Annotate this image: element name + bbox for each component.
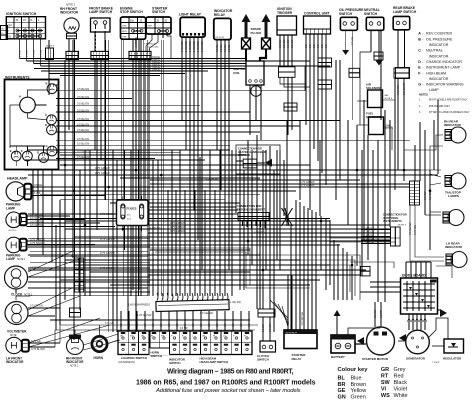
svg-text:RT: RT xyxy=(381,374,389,380)
svg-text:0.5 GN: 0.5 GN xyxy=(41,50,43,57)
svg-text:Colour key: Colour key xyxy=(338,367,369,373)
svg-text:1 WS: 1 WS xyxy=(34,191,41,195)
svg-text:SW: SW xyxy=(130,336,133,338)
svg-text:0.5 SW: 0.5 SW xyxy=(286,39,290,48)
svg-text:NEUTRAL: NEUTRAL xyxy=(426,49,443,53)
svg-text:0.5 GE: 0.5 GE xyxy=(366,233,374,237)
svg-text:1 SW/GE: 1 SW/GE xyxy=(188,41,192,52)
svg-text:0.5 GE/GN: 0.5 GE/GN xyxy=(254,232,265,234)
svg-text:GENERATOR: GENERATOR xyxy=(406,356,426,360)
svg-text:0.5: 0.5 xyxy=(215,323,219,327)
svg-text:LIGHTING SWITCH: LIGHTING SWITCH xyxy=(121,356,147,360)
svg-text:0.5 BL/SW: 0.5 BL/SW xyxy=(408,222,412,235)
svg-text:-: - xyxy=(422,49,423,53)
svg-text:SWITCH: SWITCH xyxy=(339,12,353,16)
svg-text:REGULATOR: REGULATOR xyxy=(443,356,462,360)
svg-text:HORN: HORN xyxy=(94,356,104,360)
svg-text:0.5: 0.5 xyxy=(320,44,324,48)
svg-text:NO.2: NO.2 xyxy=(127,219,131,221)
svg-text:-: - xyxy=(422,71,423,75)
svg-text:NOTE 1: NOTE 1 xyxy=(24,294,33,296)
svg-text:0.5 BL/GN: 0.5 BL/GN xyxy=(77,142,89,146)
svg-text:OFF: OFF xyxy=(122,37,127,39)
svg-text:RIGHT MODELS ARE R100RT ONLY: RIGHT MODELS ARE R100RT ONLY xyxy=(429,99,468,102)
svg-text:-: - xyxy=(422,37,423,41)
svg-text:HEADLAMP SWITCH: HEADLAMP SWITCH xyxy=(200,360,229,364)
svg-text:0.5: 0.5 xyxy=(316,44,320,48)
svg-text:0.5 BL/GN: 0.5 BL/GN xyxy=(77,137,89,141)
svg-text:1.5 SW: 1.5 SW xyxy=(373,309,377,318)
svg-text:1.5 WS: 1.5 WS xyxy=(252,177,261,180)
svg-text:0.75 SW/GN: 0.75 SW/GN xyxy=(30,237,45,241)
svg-text:0.5 BL/GN: 0.5 BL/GN xyxy=(77,128,89,132)
svg-text:0.5: 0.5 xyxy=(304,44,308,48)
svg-text:LAMP: LAMP xyxy=(6,257,16,261)
svg-text:GN: GN xyxy=(338,394,346,400)
svg-text:0.75 SW: 0.75 SW xyxy=(413,225,417,235)
svg-text:0.5 SW: 0.5 SW xyxy=(268,323,272,332)
svg-text:0.5 GN: 0.5 GN xyxy=(350,37,354,45)
svg-text:0.5 BL: 0.5 BL xyxy=(227,44,231,52)
svg-text:LAMP SWITCH: LAMP SWITCH xyxy=(89,10,113,14)
svg-text:Grey: Grey xyxy=(394,367,406,373)
svg-text:NOTE 3: NOTE 3 xyxy=(385,98,393,100)
svg-text:NOTE 3: NOTE 3 xyxy=(386,128,394,130)
svg-text:1.5 RT/WS: 1.5 RT/WS xyxy=(150,227,161,229)
svg-text:0.5 BL/GN: 0.5 BL/GN xyxy=(77,108,89,112)
svg-text:Additional fuse and power sock: Additional fuse and power socket not sho… xyxy=(155,388,301,394)
svg-text:0.75 GR: 0.75 GR xyxy=(105,323,114,325)
svg-text:0.5: 0.5 xyxy=(183,323,187,327)
svg-text:INDICATOR: INDICATOR xyxy=(429,54,449,58)
svg-text:0.5 SW GE: 0.5 SW GE xyxy=(300,312,304,325)
svg-text:0.5: 0.5 xyxy=(223,323,227,327)
svg-text:INDICATOR: INDICATOR xyxy=(60,11,79,15)
svg-text:0.5 BL: 0.5 BL xyxy=(215,44,219,52)
svg-text:1 SW/GE: 1 SW/GE xyxy=(184,41,188,52)
svg-text:SW: SW xyxy=(381,380,391,386)
svg-text:B: B xyxy=(418,37,421,41)
svg-text:0.5 BL/GN: 0.5 BL/GN xyxy=(77,155,89,159)
svg-text:0.5: 0.5 xyxy=(231,323,235,327)
svg-text:INDICATOR: INDICATOR xyxy=(445,245,463,249)
svg-text:1 SW/GE: 1 SW/GE xyxy=(192,41,196,52)
svg-text:NAY: NAY xyxy=(385,94,390,97)
svg-text:LIGHT RELAY: LIGHT RELAY xyxy=(179,13,202,17)
svg-text:0.5 GR/SW: 0.5 GR/SW xyxy=(30,219,44,223)
svg-text:1 GE SW: 1 GE SW xyxy=(230,300,241,304)
svg-text:0.5 SW: 0.5 SW xyxy=(423,191,427,200)
svg-text:0.5 GE/SW: 0.5 GE/SW xyxy=(200,311,214,315)
svg-text:0.5 SW: 0.5 SW xyxy=(282,39,286,48)
svg-text:0.5 RT: 0.5 RT xyxy=(379,310,383,318)
svg-text:0.5: 0.5 xyxy=(127,323,131,327)
svg-text:LAMPS: LAMPS xyxy=(448,194,459,198)
svg-text:0.75 SW: 0.75 SW xyxy=(396,85,400,95)
svg-text:ON: ON xyxy=(7,36,11,39)
svg-text:RUN: RUN xyxy=(122,31,127,33)
svg-text:0.5: 0.5 xyxy=(167,323,171,327)
svg-text:0.5: 0.5 xyxy=(247,323,251,327)
svg-text:1 SW/GE: 1 SW/GE xyxy=(180,41,184,52)
svg-text:0.5: 0.5 xyxy=(207,323,211,327)
svg-text:NOTES: NOTES xyxy=(419,92,428,96)
svg-text:0.5: 0.5 xyxy=(324,44,328,48)
svg-text:0.5: 0.5 xyxy=(191,323,195,327)
svg-text:THA: THA xyxy=(386,124,391,127)
svg-text:0.5 BL: 0.5 BL xyxy=(219,44,223,52)
svg-text:BL: BL xyxy=(338,376,346,382)
svg-text:1 SW/GE: 1 SW/GE xyxy=(196,41,200,52)
svg-text:0.5 GE: 0.5 GE xyxy=(366,226,374,230)
svg-text:VOLTMETER: VOLTMETER xyxy=(7,329,27,333)
svg-text:0.5 BL/GN: 0.5 BL/GN xyxy=(77,117,89,121)
svg-text:HEADLAMP: HEADLAMP xyxy=(7,176,28,180)
svg-text:OFF: OFF xyxy=(7,25,12,28)
svg-text:WS: WS xyxy=(381,393,390,399)
svg-text:BATTERY: BATTERY xyxy=(331,355,345,359)
svg-text:LAMP: LAMP xyxy=(6,206,16,210)
svg-text:0.5: 0.5 xyxy=(239,323,243,327)
svg-text:A: A xyxy=(418,32,421,36)
svg-text:B: B xyxy=(46,82,48,86)
svg-text:SWITCH: SWITCH xyxy=(151,354,162,358)
svg-text:CONNECTION FOR: CONNECTION FOR xyxy=(383,212,407,216)
svg-text:INDICATOR: INDICATOR xyxy=(429,43,449,47)
svg-text:COIL: COIL xyxy=(233,71,240,75)
svg-text:VI: VI xyxy=(381,387,387,393)
svg-text:1.25 GE/SW: 1.25 GE/SW xyxy=(137,313,152,317)
svg-text:C: C xyxy=(418,49,421,53)
svg-text:0.75 GR/SW: 0.75 GR/SW xyxy=(300,180,315,184)
svg-text:RELAY: RELAY xyxy=(214,13,226,17)
svg-text:1.5 BR/SW: 1.5 BR/SW xyxy=(206,177,219,180)
svg-text:LHS W/HARNESS: LHS W/HARNESS xyxy=(129,303,151,307)
svg-text:RELAY: RELAY xyxy=(292,357,302,361)
svg-text:Green: Green xyxy=(351,394,366,400)
svg-text:DIODE BOARD: DIODE BOARD xyxy=(402,273,426,277)
svg-text:1-15 BL/GE: 1-15 BL/GE xyxy=(241,229,253,231)
svg-text:(COOL GE): (COOL GE) xyxy=(147,47,159,49)
svg-text:Black: Black xyxy=(394,380,408,386)
svg-text:Red: Red xyxy=(394,374,404,380)
svg-text:FITTED TO LATER US MODELS ONLY: FITTED TO LATER US MODELS ONLY xyxy=(429,111,470,114)
svg-text:Violet: Violet xyxy=(394,387,408,393)
svg-text:0.5 BL/GN: 0.5 BL/GN xyxy=(77,122,89,126)
svg-text:STARTER MOTOR: STARTER MOTOR xyxy=(362,357,389,361)
svg-text:0.5 BR: 0.5 BR xyxy=(261,324,265,332)
svg-text:NOTE 1: NOTE 1 xyxy=(71,256,80,258)
svg-text:INDICATOR: INDICATOR xyxy=(66,360,84,364)
svg-text:LAMP: LAMP xyxy=(429,88,439,92)
svg-text:0.5: 0.5 xyxy=(159,323,163,327)
svg-text:NOTE 1: NOTE 1 xyxy=(9,230,18,232)
svg-text:ADDITIONAL: ADDITIONAL xyxy=(383,216,399,220)
svg-text:0.5 GR/SW: 0.5 GR/SW xyxy=(30,216,44,220)
svg-text:NOTE 1: NOTE 1 xyxy=(17,259,26,261)
svg-text:SWITCH: SWITCH xyxy=(152,10,166,14)
svg-text:0.5 SW: 0.5 SW xyxy=(278,39,282,48)
svg-text:0.75 GR: 0.75 GR xyxy=(31,339,41,343)
svg-text:E: E xyxy=(10,149,12,153)
svg-text:Wiring diagram – 1985 on R80 a: Wiring diagram – 1985 on R80 and R80RT, xyxy=(167,369,293,376)
svg-text:-: - xyxy=(422,83,423,87)
svg-text:GE: GE xyxy=(338,388,346,394)
svg-text:INDICATOR WARNING: INDICATOR WARNING xyxy=(426,83,464,87)
svg-text:-: - xyxy=(422,66,423,70)
svg-text:0.5 BL/GN: 0.5 BL/GN xyxy=(77,102,89,106)
svg-text:0.5: 0.5 xyxy=(119,323,123,327)
svg-text:0.5 BL/GN: 0.5 BL/GN xyxy=(77,149,89,153)
svg-text:D: D xyxy=(45,123,47,127)
svg-text:CLOCK: CLOCK xyxy=(11,292,23,296)
svg-text:1 RT/SW GE: 1 RT/SW GE xyxy=(144,44,157,46)
svg-text:LO: LO xyxy=(223,336,226,338)
svg-text:0.5 GR/SW: 0.5 GR/SW xyxy=(30,223,44,227)
svg-text:OIL PRESSURE: OIL PRESSURE xyxy=(426,37,453,41)
svg-text:0.5: 0.5 xyxy=(143,323,147,327)
svg-text:NOTE 3: NOTE 3 xyxy=(398,225,407,227)
svg-text:NOTE 3: NOTE 3 xyxy=(46,46,55,48)
svg-text:CONTROL UNIT: CONTROL UNIT xyxy=(304,11,330,15)
svg-text:0.5: 0.5 xyxy=(199,323,203,327)
svg-text:CHARGE INDICATOR: CHARGE INDICATOR xyxy=(426,60,462,64)
svg-text:1.5 GR: 1.5 GR xyxy=(126,229,133,231)
svg-text:D: D xyxy=(418,60,421,64)
svg-text:HIGH BEAM: HIGH BEAM xyxy=(426,71,446,75)
svg-text:1 SW/GE: 1 SW/GE xyxy=(150,68,160,71)
svg-text:1986 on R65, and 1987 on R100R: 1986 on R65, and 1987 on R100RS and R100… xyxy=(136,379,316,386)
svg-text:NOTE: NOTE xyxy=(10,335,17,337)
svg-text:C: C xyxy=(45,113,47,117)
svg-text:PLUGS: PLUGS xyxy=(251,31,262,35)
svg-text:0.5 GE: 0.5 GE xyxy=(366,236,374,240)
svg-text:0.5 GN: 0.5 GN xyxy=(20,50,22,57)
svg-text:# 70078: # 70078 xyxy=(432,362,440,364)
svg-text:F: F xyxy=(21,149,23,153)
svg-text:0.5: 0.5 xyxy=(175,323,179,327)
svg-text:LAMP SWITCH: LAMP SWITCH xyxy=(393,10,417,14)
svg-text:0.5 GN: 0.5 GN xyxy=(27,50,29,57)
svg-text:TRIGGER: TRIGGER xyxy=(277,11,293,15)
svg-text:0.5 GN: 0.5 GN xyxy=(34,50,36,57)
svg-text:SWITCH: SWITCH xyxy=(169,361,180,365)
svg-text:INDICATOR: INDICATOR xyxy=(6,360,24,364)
svg-text:0.5 GR: 0.5 GR xyxy=(428,192,432,200)
svg-text:G: G xyxy=(418,83,421,87)
svg-text:SWITCH: SWITCH xyxy=(257,358,269,362)
svg-text:G: G xyxy=(46,144,48,148)
svg-text:0.5: 0.5 xyxy=(312,44,316,48)
svg-text:C9L 49 31: C9L 49 31 xyxy=(215,37,225,39)
svg-text:0.5: 0.5 xyxy=(151,323,155,327)
svg-text:0.5: 0.5 xyxy=(135,323,139,327)
svg-text:0.5 GE: 0.5 GE xyxy=(366,240,374,244)
svg-text:GRIPS: GRIPS xyxy=(238,153,246,157)
svg-text:30 85 86 87: 30 85 86 87 xyxy=(286,333,298,335)
svg-text:REV COUNTER: REV COUNTER xyxy=(426,32,453,36)
svg-text:1 SW/GE: 1 SW/GE xyxy=(200,41,204,52)
svg-text:INSTRUMENTS: INSTRUMENTS xyxy=(383,219,402,223)
svg-text:Blue: Blue xyxy=(351,376,362,382)
svg-text:White: White xyxy=(394,393,408,399)
svg-text:GR: GR xyxy=(381,367,389,373)
svg-text:0.5 SW: 0.5 SW xyxy=(290,39,294,48)
svg-text:OFF: OFF xyxy=(122,26,127,28)
svg-text:0.5 GE: 0.5 GE xyxy=(366,229,374,233)
svg-text:NO.1: NO.1 xyxy=(127,215,131,217)
svg-text:0.5 GR/SW: 0.5 GR/SW xyxy=(30,212,44,216)
svg-text:CONNECTION FOR: CONNECTION FOR xyxy=(237,204,262,208)
svg-text:FUSES: FUSES xyxy=(127,207,137,211)
svg-text:0.75 BL/SW: 0.75 BL/SW xyxy=(31,347,45,351)
svg-text:0.5 GE: 0.5 GE xyxy=(34,183,42,187)
svg-text:D: D xyxy=(37,151,39,155)
svg-text:INDICATOR: INDICATOR xyxy=(429,77,449,81)
svg-text:0.5 BL: 0.5 BL xyxy=(223,44,227,52)
svg-text:STOP SWITCH: STOP SWITCH xyxy=(120,10,143,14)
svg-text:0.5: 0.5 xyxy=(308,44,312,48)
svg-text:SPECIAL EQUIPMENT: SPECIAL EQUIPMENT xyxy=(237,207,266,211)
svg-text:OFF: OFF xyxy=(148,26,153,28)
svg-text:0.5 BL/GN: 0.5 BL/GN xyxy=(77,87,89,91)
svg-text:Yellow: Yellow xyxy=(351,388,367,394)
svg-text:0.75 SW/GN: 0.75 SW/GN xyxy=(30,241,45,245)
svg-text:0.5 BL/GN: 0.5 BL/GN xyxy=(77,95,89,99)
svg-text:R: R xyxy=(31,19,33,22)
svg-text:NOTE 1: NOTE 1 xyxy=(70,365,79,367)
svg-text:IGNITION SWITCH: IGNITION SWITCH xyxy=(6,12,37,16)
svg-text:0.5 GR/RT: 0.5 GR/RT xyxy=(402,82,406,95)
svg-text:(US MODELS): (US MODELS) xyxy=(118,361,135,364)
svg-text:-: - xyxy=(422,60,423,64)
svg-text:0.5 SW: 0.5 SW xyxy=(180,328,188,330)
svg-text:BR: BR xyxy=(338,382,346,388)
svg-text:-: - xyxy=(422,32,423,36)
svg-text:R65 AND R80 ONLY: R65 AND R80 ONLY xyxy=(429,105,451,108)
svg-text:SWITCH: SWITCH xyxy=(364,12,378,16)
svg-text:Brown: Brown xyxy=(351,382,367,388)
svg-text:INSTRUMENT LAMP: INSTRUMENT LAMP xyxy=(426,66,461,70)
